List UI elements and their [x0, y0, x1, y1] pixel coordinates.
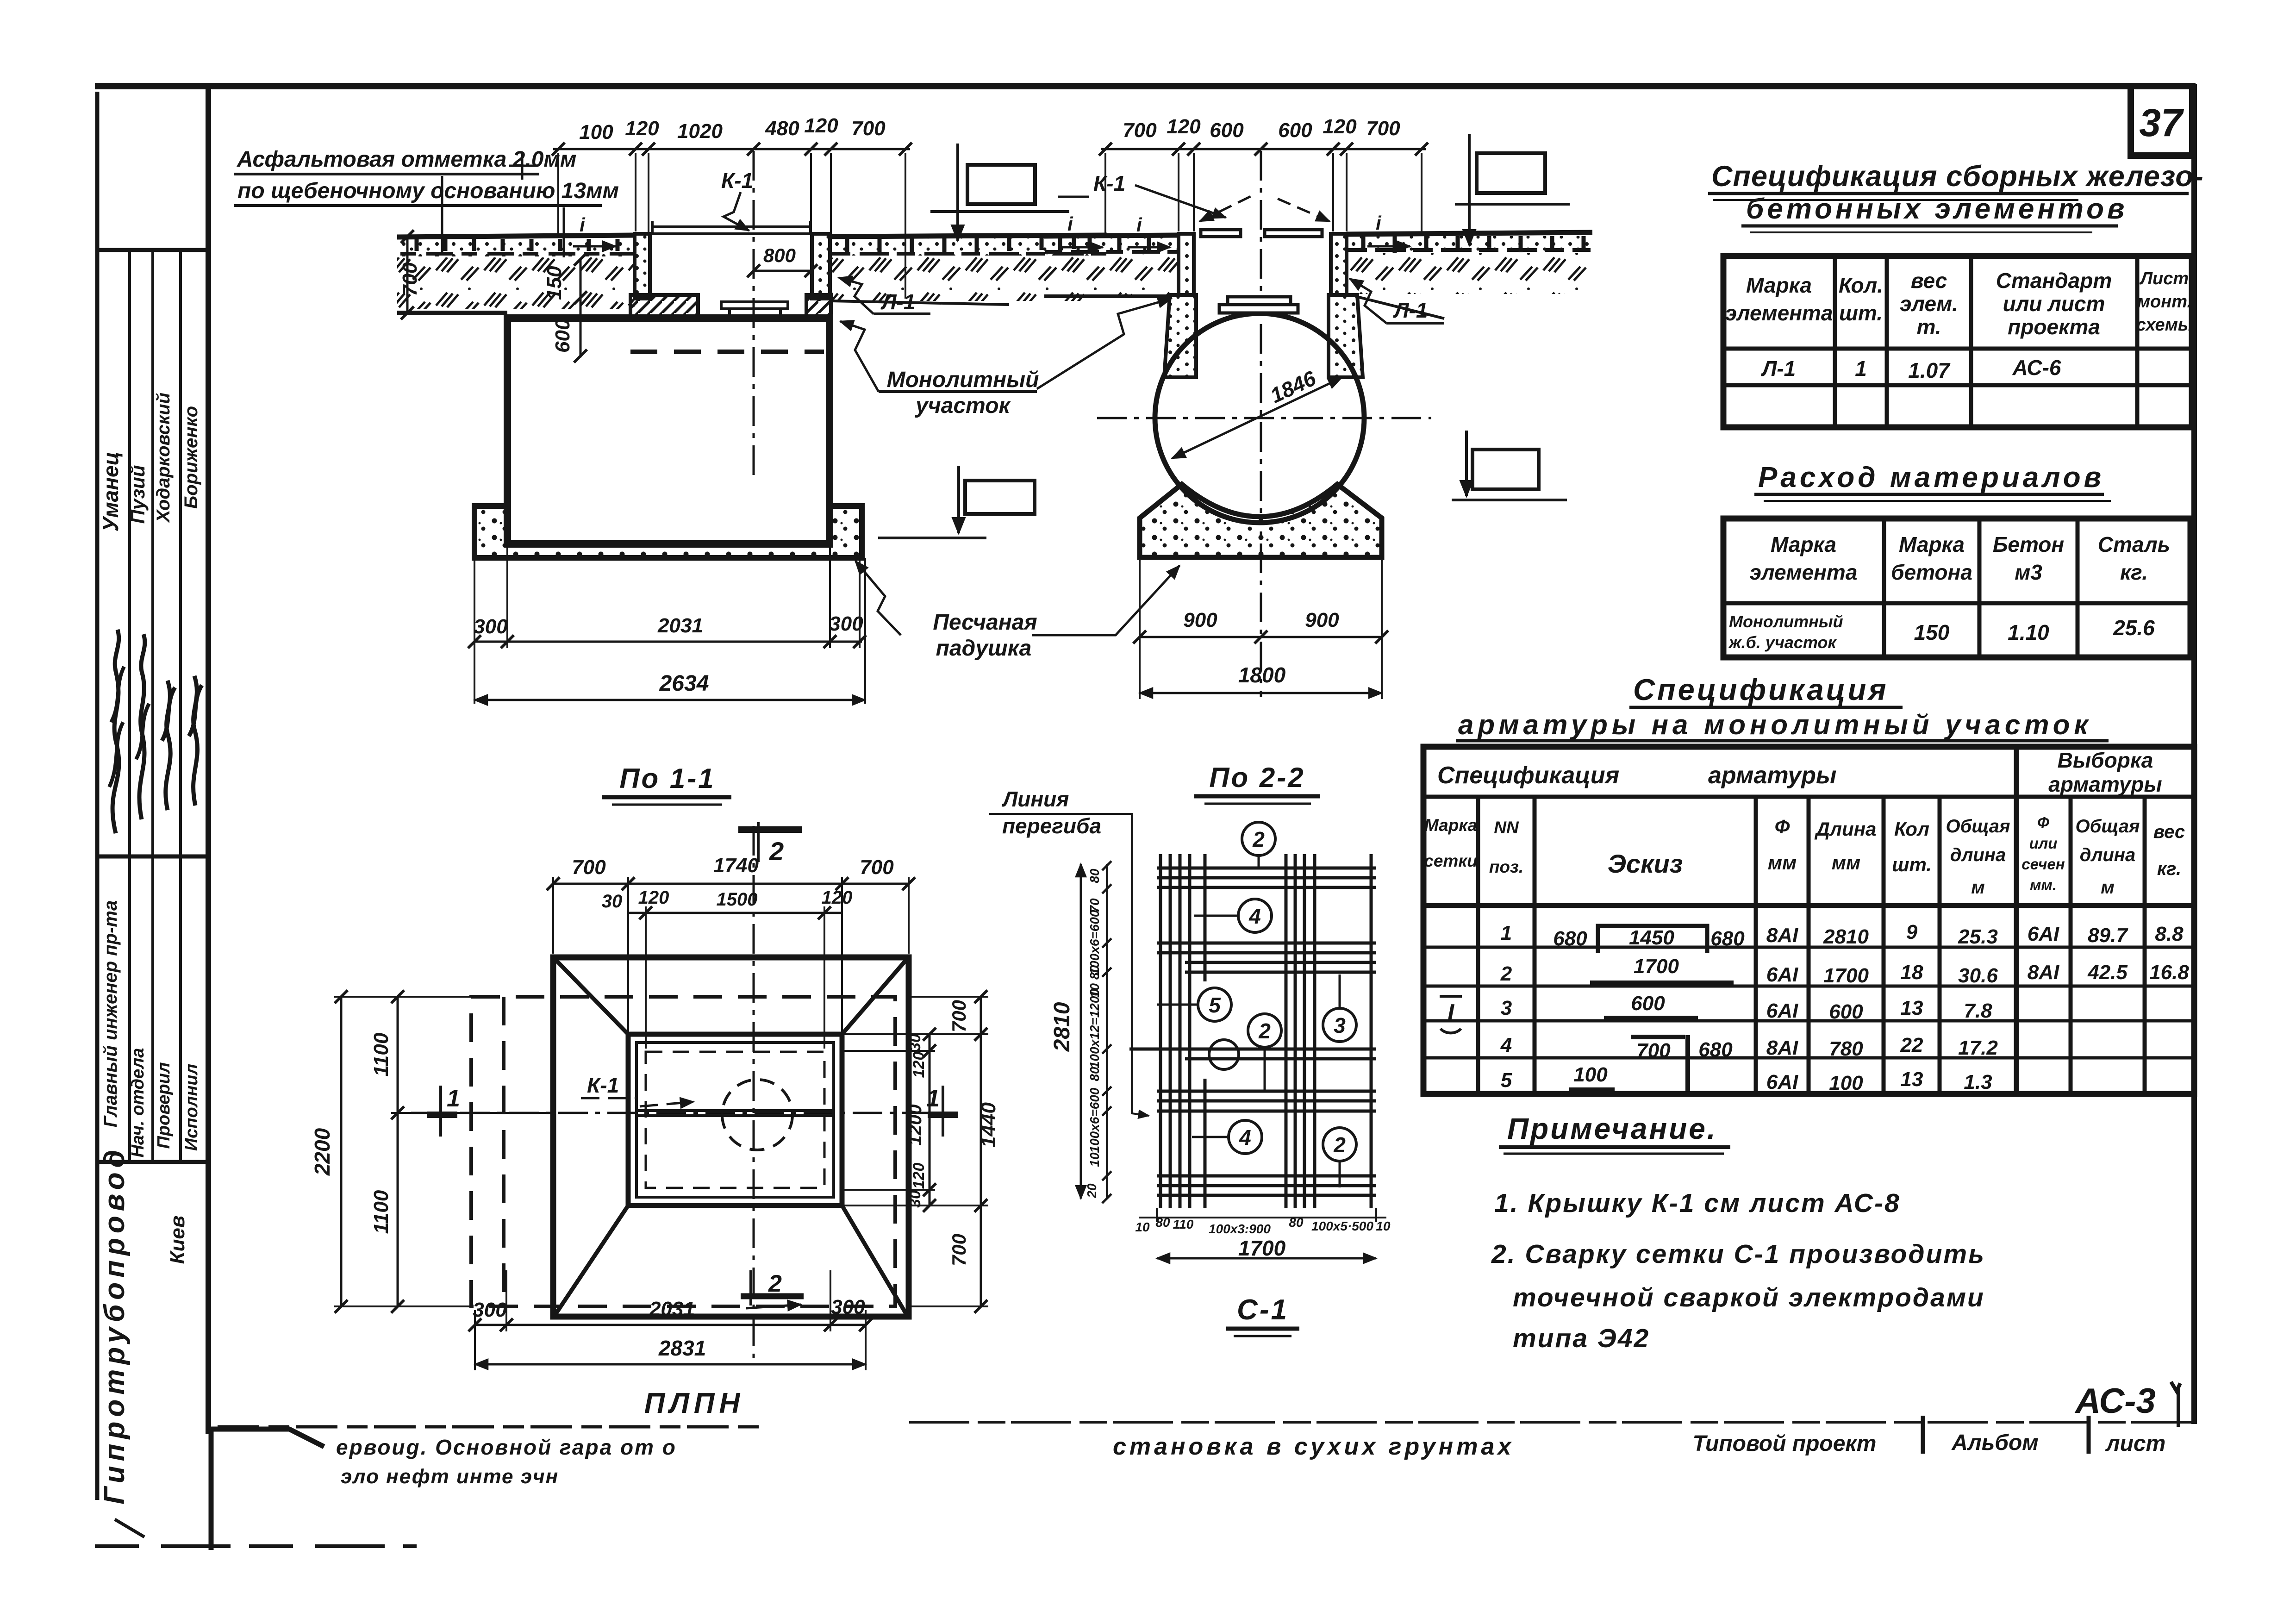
v1 ground left — [397, 235, 635, 237]
svg-text:300: 300 — [831, 1296, 865, 1318]
note Асфальтовая отметка — [237, 147, 619, 203]
svg-text:типа Э42: типа Э42 — [1513, 1324, 1650, 1353]
svg-text:30: 30 — [602, 891, 623, 912]
svg-text:2200: 2200 — [310, 1128, 334, 1176]
v2 ground right — [1347, 232, 1592, 234]
svg-text:8АI: 8АI — [1766, 1037, 1798, 1059]
svg-text:бетона: бетона — [1891, 560, 1972, 584]
section mark 2 top of plan — [757, 822, 760, 862]
svg-text:Спецификация: Спецификация — [1437, 762, 1619, 789]
svg-text:120: 120 — [804, 114, 838, 137]
svg-text:По 1-1: По 1-1 — [619, 763, 715, 794]
svg-text:300: 300 — [829, 612, 863, 635]
svg-text:сетки: сетки — [1424, 851, 1477, 870]
v1 top dim ticks — [552, 143, 912, 156]
svg-text:120: 120 — [1323, 115, 1357, 138]
mesh left dim chain — [1106, 864, 1108, 1199]
svg-text:К-1: К-1 — [721, 169, 753, 193]
plan top dim 700 1740 700 — [553, 877, 909, 1032]
svg-text:падушка: падушка — [936, 636, 1032, 661]
svg-text:80: 80 — [1289, 1215, 1304, 1230]
svg-text:ж.б. участок: ж.б. участок — [1728, 633, 1837, 652]
plan cover split line — [636, 1111, 834, 1116]
plan centerline vertical — [753, 826, 755, 1361]
t3 row 1 — [1501, 921, 2184, 950]
svg-text:1450: 1450 — [1629, 926, 1674, 949]
svg-text:вес: вес — [1911, 269, 1947, 293]
plan dim 30 120 1500 120 — [628, 912, 842, 914]
svg-text:1: 1 — [1855, 356, 1867, 381]
svg-text:1440: 1440 — [977, 1102, 1000, 1148]
svg-text:Длина: Длина — [1815, 818, 1877, 840]
plan dashed wall line — [502, 997, 505, 1306]
stamp bottom corner lines — [211, 1429, 324, 1550]
plan dashed circle — [722, 1080, 792, 1150]
mesh horizontal bars — [1129, 868, 1376, 1195]
svg-text:680: 680 — [1710, 927, 1745, 950]
svg-text:3: 3 — [1334, 1013, 1346, 1037]
svg-text:2634: 2634 — [659, 671, 709, 696]
svg-text:перегиба: перегиба — [1002, 814, 1101, 838]
svg-text:длина: длина — [2080, 845, 2135, 865]
svg-text:участок: участок — [915, 394, 1011, 418]
svg-text:120: 120 — [822, 887, 853, 908]
t3 row 2 — [1500, 955, 2190, 987]
svg-text:300: 300 — [474, 615, 508, 638]
svg-text:20: 20 — [1085, 1183, 1099, 1199]
t2 grid — [1723, 518, 2190, 657]
svg-text:Пузий: Пузий — [127, 465, 149, 524]
svg-text:Бетон: Бетон — [1993, 532, 2064, 556]
svg-text:10: 10 — [1087, 1152, 1102, 1167]
svg-text:30.6: 30.6 — [1958, 964, 1998, 987]
v1 ground right — [831, 235, 1107, 237]
svg-text:точечной сваркой электродами: точечной сваркой электродами — [1513, 1283, 1985, 1312]
plan inner rect — [636, 1043, 834, 1197]
svg-text:вес: вес — [2153, 822, 2185, 842]
svg-text:4: 4 — [1500, 1034, 1512, 1056]
svg-text:22: 22 — [1900, 1034, 1923, 1056]
svg-text:1800: 1800 — [1238, 663, 1286, 687]
svg-text:Марка: Марка — [1424, 816, 1477, 835]
svg-text:6АI: 6АI — [1766, 963, 1798, 986]
svg-text:Проверил: Проверил — [154, 1062, 174, 1149]
svg-text:1700: 1700 — [1238, 1236, 1286, 1260]
svg-text:элем.: элем. — [1900, 292, 1958, 316]
svg-text:900: 900 — [1183, 609, 1217, 631]
v2 circle vertical centerline inner — [1260, 324, 1262, 514]
t1 row Л-1 — [1761, 356, 2061, 382]
svg-text:Примечание.: Примечание. — [1507, 1112, 1717, 1145]
v2 saddle stippled — [1140, 484, 1382, 557]
v2 top dim labels — [1123, 115, 1400, 142]
v2 ground left — [1044, 235, 1179, 236]
svg-text:шт.: шт. — [1839, 301, 1883, 325]
stamp signatures — [112, 630, 119, 833]
svg-text:110: 110 — [1173, 1217, 1194, 1231]
svg-text:7.8: 7.8 — [1964, 999, 1992, 1022]
svg-text:6АI: 6АI — [2028, 923, 2059, 945]
svg-text:проекта: проекта — [2008, 315, 2100, 339]
v2 collar wall right — [1331, 234, 1347, 295]
svg-text:1700: 1700 — [1634, 955, 1679, 978]
svg-text:1: 1 — [1501, 922, 1512, 944]
svg-text:Гипротрубопровод: Гипротрубопровод — [99, 1145, 131, 1505]
svg-text:Выборка: Выборка — [2058, 748, 2153, 772]
svg-text:16.8: 16.8 — [2149, 961, 2189, 984]
v1 dim 800 — [754, 270, 811, 272]
svg-text:Марка: Марка — [1771, 532, 1836, 556]
stamp horizontal dividers — [97, 250, 208, 1162]
svg-text:ПЛПН: ПЛПН — [644, 1387, 745, 1419]
svg-text:ервоug. Основной гара от о: ервоug. Основной гара от о — [336, 1435, 677, 1459]
v1 collar wall left Л-1 — [635, 234, 650, 299]
svg-text:Марка: Марка — [1746, 273, 1812, 297]
svg-text:2: 2 — [1333, 1133, 1346, 1157]
svg-text:по щебеночному основанию 13мм: по щебеночному основанию 13мм — [237, 179, 619, 203]
v2 monolithic wall left flared — [1164, 295, 1196, 377]
v1 extension lines — [558, 153, 905, 299]
mesh bottom dim chain — [1157, 1208, 1376, 1222]
stamp column lines — [130, 250, 181, 1162]
v2 top dimension line — [1101, 148, 1426, 150]
v1 overall dim 2634 — [474, 699, 865, 701]
svg-text:1. Крышку К-1 см лист АС-8: 1. Крышку К-1 см лист АС-8 — [1494, 1188, 1901, 1218]
svg-text:длина: длина — [1950, 845, 2006, 865]
svg-text:80: 80 — [1155, 1215, 1170, 1230]
svg-text:1200: 1200 — [905, 1105, 925, 1146]
v2 top dim ticks — [1099, 143, 1428, 156]
svg-text:120: 120 — [910, 1163, 928, 1189]
plan right dims chain — [842, 997, 988, 1306]
v2 overall dim 1800 — [1140, 692, 1382, 694]
svg-text:700: 700 — [399, 262, 421, 296]
svg-text:2: 2 — [1258, 1019, 1271, 1043]
svg-text:600: 600 — [1278, 119, 1312, 142]
svg-text:Сталь: Сталь — [2098, 532, 2170, 556]
svg-text:кг.: кг. — [2157, 859, 2181, 879]
svg-text:Асфальтовая отметка 2.0мм: Асфальтовая отметка 2.0мм — [237, 147, 576, 172]
svg-text:м: м — [2101, 877, 2115, 898]
svg-text:арматуры на монолитный участо: арматуры на монолитный участок — [1458, 709, 2092, 740]
svg-text:арматуры: арматуры — [2048, 772, 2162, 796]
svg-text:Киев: Киев — [166, 1216, 189, 1264]
svg-text:900: 900 — [1305, 609, 1339, 631]
svg-text:I: I — [1447, 999, 1455, 1026]
svg-text:9: 9 — [1906, 921, 1918, 943]
svg-text:Л-1: Л-1 — [1761, 356, 1796, 381]
svg-text:АС-6: АС-6 — [2012, 356, 2061, 380]
svg-text:8АI: 8АI — [1766, 924, 1798, 947]
svg-text:6АI: 6АI — [1766, 1071, 1798, 1093]
plan dashed opening rect — [646, 1052, 824, 1188]
svg-text:Монолитный: Монолитный — [887, 368, 1039, 392]
plan left dims 2200 1100 1100 — [334, 997, 553, 1306]
t3 row lines — [1423, 947, 2194, 1058]
svg-text:5: 5 — [1209, 993, 1221, 1017]
v2 collar wall left — [1179, 234, 1194, 295]
svg-text:700: 700 — [948, 1234, 970, 1266]
asphalt root ticks — [417, 239, 618, 251]
bottom band texts — [336, 1430, 2165, 1488]
v1 monolithic slab left hatched — [630, 295, 698, 318]
bottom band separators — [1923, 1416, 2089, 1454]
svg-text:Общая: Общая — [1946, 816, 2010, 837]
svg-text:2: 2 — [768, 1270, 782, 1297]
svg-text:Спецификация сборных железо-: Спецификация сборных железо- — [1711, 160, 2204, 193]
svg-text:30: 30 — [906, 1034, 924, 1051]
svg-text:Монолитный: Монолитный — [1729, 612, 1843, 631]
svg-text:100х5·500: 100х5·500 — [1311, 1219, 1373, 1233]
v2 extension lines — [1105, 153, 1422, 234]
t3 row 5 — [1501, 1063, 1992, 1094]
plan overall dim 2831 — [475, 1363, 866, 1366]
svg-text:i: i — [580, 214, 586, 236]
v1 tank outline — [507, 318, 830, 544]
svg-text:арматуры: арматуры — [1708, 762, 1836, 789]
svg-text:Ф: Ф — [2037, 814, 2049, 831]
sheet number box — [2131, 86, 2192, 156]
svg-text:1.3: 1.3 — [1964, 1071, 1992, 1093]
svg-text:элемента: элемента — [1750, 560, 1858, 584]
svg-text:120: 120 — [1167, 115, 1201, 138]
v2 level box upper — [1477, 153, 1545, 193]
svg-text:мм.: мм. — [2030, 876, 2057, 893]
stamp strip inner frame line — [206, 87, 211, 1434]
asphalt clumps v2 left — [1045, 250, 1178, 254]
svg-text:780: 780 — [1829, 1037, 1863, 1060]
svg-text:100х6=600: 100х6=600 — [1087, 1087, 1102, 1153]
svg-text:17.2: 17.2 — [1958, 1037, 1998, 1059]
svg-text:м3: м3 — [2015, 560, 2042, 584]
svg-text:Кол: Кол — [1894, 818, 1929, 840]
plan bottom dim 300 2031 300 — [475, 1270, 866, 1370]
svg-text:100х12=1200: 100х12=1200 — [1087, 989, 1102, 1069]
svg-text:Линия: Линия — [1002, 787, 1069, 811]
svg-text:Эскиз: Эскиз — [1608, 849, 1683, 878]
t1 grid — [1723, 256, 2192, 427]
v1 collar wall right Л-1 — [812, 234, 830, 299]
plan dashed pad rectangle — [471, 997, 895, 1306]
svg-text:2031: 2031 — [657, 614, 703, 637]
plan outer square — [553, 957, 909, 1317]
svg-text:или лист: или лист — [2003, 292, 2105, 316]
asphalt clumps v1 left — [400, 252, 633, 256]
svg-text:Уманец: Уманец — [99, 452, 123, 532]
plan corner diagonals — [555, 960, 906, 1314]
svg-text:Кол.: Кол. — [1839, 273, 1883, 297]
v2 cover halves — [1201, 230, 1241, 237]
svg-text:поз.: поз. — [1489, 857, 1523, 876]
v1 cover K-1 closed — [652, 227, 811, 234]
v1 dim 700 depth — [406, 239, 409, 312]
v2 opened cover leaves dashed — [1200, 196, 1251, 221]
svg-text:2: 2 — [1500, 962, 1512, 985]
svg-text:К-1: К-1 — [1093, 171, 1125, 195]
svg-text:150: 150 — [1914, 620, 1950, 644]
svg-text:Бориженко: Бориженко — [181, 406, 201, 509]
svg-text:89.7: 89.7 — [2088, 924, 2128, 947]
svg-text:мм: мм — [1768, 852, 1797, 874]
svg-text:шт.: шт. — [1892, 854, 1932, 875]
leader to v1 pad — [855, 561, 901, 635]
svg-text:становка в сухих грунтах: становка в сухих грунтах — [1113, 1433, 1514, 1460]
v2 diameter 1846 — [1172, 378, 1341, 458]
t3 grid outer — [1423, 747, 2194, 1094]
svg-text:Главный инженер пр-та: Главный инженер пр-та — [100, 900, 121, 1127]
svg-text:кг.: кг. — [2120, 560, 2148, 584]
svg-text:120: 120 — [625, 117, 659, 140]
svg-text:700: 700 — [1366, 117, 1400, 140]
svg-text:1020: 1020 — [677, 120, 723, 143]
bottom left dashes — [95, 1544, 417, 1548]
svg-text:Альбом: Альбом — [1951, 1430, 2039, 1455]
mesh vertical bars — [1160, 854, 1371, 1208]
svg-text:Песчаная: Песчаная — [933, 610, 1037, 635]
v1 level box upper — [967, 165, 1035, 204]
plan section mark 1 left — [439, 1086, 442, 1137]
sheet frame right border — [2191, 84, 2197, 1424]
svg-text:600: 600 — [551, 319, 574, 353]
svg-text:120: 120 — [910, 1052, 928, 1078]
svg-text:С-1: С-1 — [1237, 1294, 1289, 1326]
bottom band line — [218, 1425, 764, 1429]
svg-text:700: 700 — [1123, 119, 1157, 142]
svg-text:18: 18 — [1901, 961, 1923, 984]
mesh overall 1700 — [1157, 1257, 1376, 1260]
v1 dims 150 600 — [580, 259, 582, 357]
svg-text:Типовой проект: Типовой проект — [1693, 1431, 1877, 1456]
svg-text:i: i — [1067, 213, 1073, 235]
v1 vertical centerline — [753, 151, 755, 478]
svg-text:Расход материалов: Расход материалов — [1758, 462, 2104, 493]
t1 headers — [1725, 269, 2112, 339]
svg-text:2810: 2810 — [1050, 1002, 1074, 1052]
svg-text:1: 1 — [447, 1085, 460, 1112]
svg-text:30: 30 — [906, 1190, 924, 1208]
v1 bottom dim 300 2031 300 — [474, 546, 865, 704]
v2 pipe nozzle — [1228, 297, 1291, 305]
svg-text:8АI: 8АI — [2028, 961, 2059, 984]
svg-text:3: 3 — [1501, 997, 1512, 1019]
svg-text:1700: 1700 — [1823, 964, 1869, 987]
t3 header row line — [1423, 795, 2194, 799]
v2 dim 900 900 — [1140, 560, 1382, 699]
svg-text:42.5: 42.5 — [2087, 961, 2128, 984]
svg-text:13: 13 — [1901, 997, 1923, 1019]
svg-text:К-1: К-1 — [587, 1073, 619, 1097]
t3 column lines — [2014, 747, 2019, 1094]
svg-text:10: 10 — [1135, 1220, 1150, 1234]
svg-text:600: 600 — [1631, 992, 1665, 1015]
svg-text:700: 700 — [572, 856, 606, 879]
plan section mark 2 bottom — [749, 1270, 752, 1305]
t2 headers — [1750, 532, 2171, 584]
svg-text:680: 680 — [1553, 927, 1587, 950]
svg-text:6АI: 6АI — [1766, 999, 1798, 1022]
svg-text:2810: 2810 — [1823, 925, 1869, 948]
v1 level box lower — [965, 481, 1035, 514]
svg-text:Лист: Лист — [2139, 269, 2189, 288]
svg-text:Общая: Общая — [2075, 816, 2140, 837]
svg-text:АС-3: АС-3 — [2074, 1381, 2156, 1421]
asphalt clumps v2 right — [1348, 248, 1591, 252]
svg-text:Марка: Марка — [1899, 532, 1965, 556]
svg-text:2831: 2831 — [658, 1336, 706, 1360]
svg-text:По 2-2: По 2-2 — [1209, 762, 1305, 793]
v1 monolithic slab right hatched — [806, 295, 831, 318]
stamp strip outer line — [95, 92, 100, 1500]
plan centerline horizontal — [411, 1112, 954, 1114]
svg-text:Л-1: Л-1 — [1393, 298, 1428, 322]
svg-text:37: 37 — [2139, 101, 2184, 144]
sheet frame top border — [95, 83, 2194, 89]
svg-text:13: 13 — [1901, 1068, 1923, 1091]
svg-text:150: 150 — [543, 266, 566, 300]
v2 vertical centerline — [1260, 151, 1262, 697]
svg-text:1740: 1740 — [713, 854, 759, 877]
leader to v1 wall — [840, 321, 879, 392]
mesh position circles — [1157, 822, 1356, 1187]
svg-text:4: 4 — [1239, 1125, 1251, 1149]
svg-text:1500: 1500 — [717, 889, 758, 910]
svg-text:1100: 1100 — [370, 1032, 393, 1076]
svg-text:80: 80 — [1087, 1067, 1102, 1081]
svg-text:монт.: монт. — [2137, 292, 2192, 312]
svg-text:лист: лист — [2105, 1431, 2166, 1456]
leader to v2 wall — [1037, 299, 1171, 389]
svg-text:100: 100 — [1829, 1072, 1863, 1094]
plan section mark 1 right — [942, 1086, 944, 1137]
v2 pipe circle — [1155, 313, 1364, 523]
svg-text:Нач. отдела: Нач. отдела — [128, 1048, 148, 1158]
svg-text:700: 700 — [1636, 1039, 1671, 1062]
svg-text:680: 680 — [1698, 1038, 1733, 1061]
v1 dashed slab soffit — [630, 350, 824, 354]
svg-text:2. Сварку сетки С-1 произво: 2. Сварку сетки С-1 производить — [1491, 1239, 1985, 1269]
svg-text:8.8: 8.8 — [2155, 923, 2184, 945]
svg-text:элемента: элемента — [1725, 301, 1833, 325]
svg-text:т.: т. — [1916, 315, 1941, 339]
svg-text:10: 10 — [1376, 1219, 1391, 1233]
svg-text:25.3: 25.3 — [1958, 925, 1998, 948]
svg-text:мм: мм — [1832, 852, 1860, 874]
svg-text:1: 1 — [926, 1085, 940, 1112]
svg-text:1.07: 1.07 — [1908, 358, 1951, 382]
svg-text:480: 480 — [765, 117, 799, 140]
leader to v2 saddle — [1032, 566, 1179, 635]
svg-text:Л-1: Л-1 — [880, 290, 916, 314]
svg-text:Стандарт: Стандарт — [1996, 269, 2112, 293]
svg-text:100х3:900: 100х3:900 — [1209, 1222, 1271, 1236]
svg-text:4: 4 — [1248, 904, 1261, 928]
svg-text:1100: 1100 — [370, 1190, 393, 1234]
v1 top dim labels — [579, 114, 886, 144]
svg-text:Ходарковский: Ходарковский — [153, 393, 174, 523]
svg-text:600: 600 — [1829, 1000, 1863, 1023]
svg-text:эло нефт инте: эло нефт инте эчн — [341, 1465, 559, 1488]
svg-text:2: 2 — [769, 837, 784, 866]
svg-text:Спецификация: Спецификация — [1633, 673, 1889, 706]
asphalt clumps v1 right — [832, 252, 1106, 256]
svg-text:5: 5 — [1501, 1069, 1512, 1092]
svg-text:80: 80 — [1087, 868, 1102, 883]
svg-text:700: 700 — [851, 117, 886, 140]
v1 top dimension line — [553, 148, 910, 150]
svg-text:i: i — [1376, 212, 1382, 234]
svg-text:Исполнил: Исполнил — [182, 1064, 201, 1151]
plan collar rect — [628, 1034, 842, 1206]
